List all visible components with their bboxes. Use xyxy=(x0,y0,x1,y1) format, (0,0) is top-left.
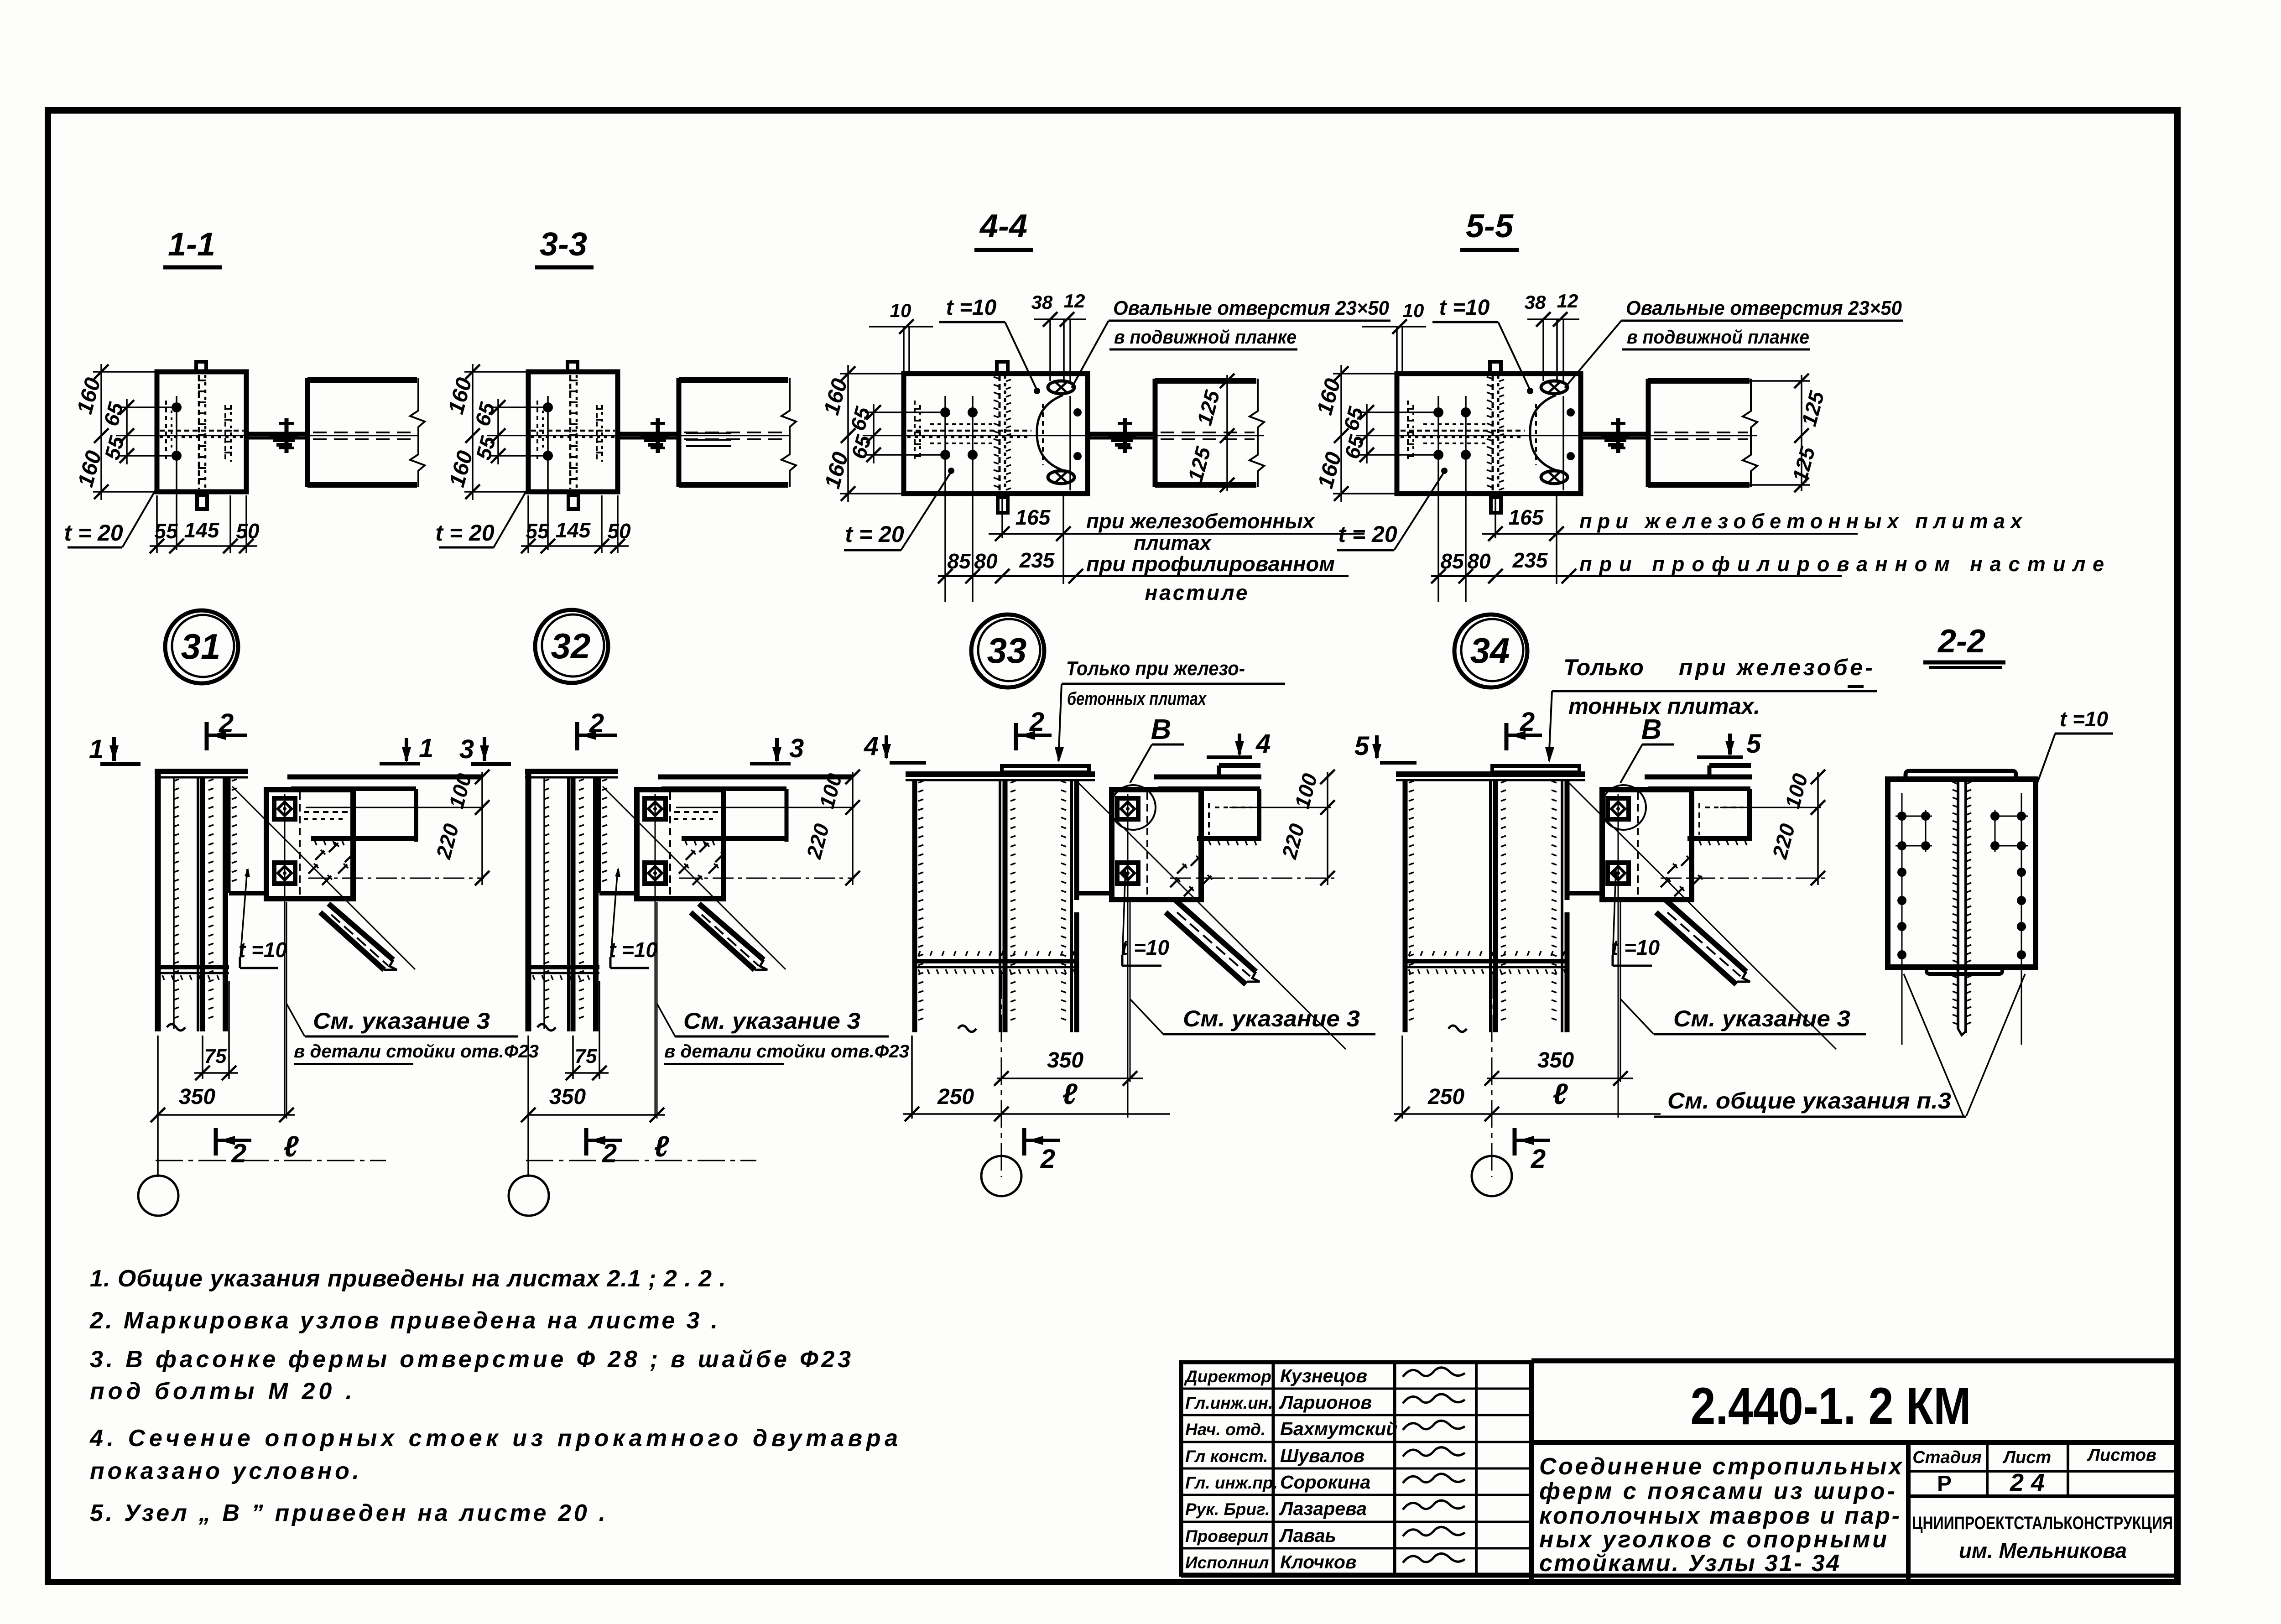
strip hidden dashes xyxy=(1042,404,1044,465)
2-2 cap plate behind xyxy=(1906,771,2016,779)
svg-text:Лист: Лист xyxy=(2002,1448,2051,1467)
2-2 web break bottom xyxy=(1958,1029,1966,1035)
dim 75 extensions xyxy=(572,1036,574,1079)
see note leader xyxy=(657,1004,675,1036)
section mark 5 on beam xyxy=(1697,755,1743,759)
svg-text:Листов: Листов xyxy=(2087,1446,2156,1465)
svg-text:10: 10 xyxy=(1403,300,1424,321)
left outer dimension line xyxy=(472,364,474,500)
dim 38 12 line xyxy=(1034,318,1086,320)
svg-text:80: 80 xyxy=(1467,549,1491,573)
diagonal brace xyxy=(1665,900,1746,972)
bolt holes centerline xyxy=(176,396,177,550)
column flange right xyxy=(223,777,228,1031)
axis line 220 dash-dot xyxy=(308,878,484,879)
dim 125 125 line xyxy=(1226,375,1228,491)
svg-text:Ларионов: Ларионов xyxy=(1279,1392,1372,1413)
svg-text:Овальные отверстия 23×50: Овальные отверстия 23×50 xyxy=(1626,297,1902,319)
beam top line xyxy=(1645,775,1752,780)
svg-text:Лазарева: Лазарева xyxy=(1279,1498,1367,1519)
svg-text:250: 250 xyxy=(1427,1085,1464,1109)
only-at leader xyxy=(1058,684,1062,761)
brace axis line xyxy=(1079,783,1346,1049)
strip hidden dashes xyxy=(1535,404,1537,465)
bolt top xyxy=(543,402,553,412)
plate top tab xyxy=(568,362,578,372)
bracket bolt top xyxy=(1608,798,1629,819)
bolt centerline xyxy=(1127,794,1129,1118)
svg-text:Только: Только xyxy=(1563,655,1644,680)
svg-text:стойками. Узлы 31- 34: стойками. Узлы 31- 34 xyxy=(1539,1550,1839,1577)
bolt rod to beam xyxy=(618,432,679,435)
section mark 2 top xyxy=(575,722,579,750)
column break marks xyxy=(537,1024,556,1031)
stiffener line with welds xyxy=(1492,375,1494,492)
svg-text:2: 2 xyxy=(1040,1144,1055,1174)
bolt bottom xyxy=(543,451,553,461)
beam second line xyxy=(1158,786,1260,791)
brace axis line xyxy=(603,786,786,969)
left outer dimension line xyxy=(847,365,849,502)
svg-text:235: 235 xyxy=(1512,548,1548,572)
column break marks xyxy=(958,1025,976,1032)
bolt centerline xyxy=(284,794,286,1118)
gusset shelf xyxy=(229,891,268,895)
svg-text:55: 55 xyxy=(526,519,550,543)
svg-text:t =10: t =10 xyxy=(1439,296,1490,320)
oval hole bottom xyxy=(1048,471,1074,484)
2-2 leader to note p3 xyxy=(1904,974,1963,1116)
dim 125 125 line xyxy=(1801,375,1802,491)
plate weld seam horizontal xyxy=(160,430,244,432)
dim 350 line xyxy=(156,1114,295,1116)
t=10 leader xyxy=(1122,869,1125,960)
gusset shelf xyxy=(599,891,639,895)
stiffener bottom tab xyxy=(1491,497,1501,513)
svg-text:2.440-1. 2 КМ: 2.440-1. 2 КМ xyxy=(1691,1377,1971,1436)
hidden dashes in bracket xyxy=(1208,803,1210,835)
svg-text:См. общие указания п.3: См. общие указания п.3 xyxy=(1667,1088,1951,1114)
dim 250 line xyxy=(903,1113,1170,1115)
svg-text:2. Маркировка узлов приведе: 2. Маркировка узлов приведена на листе 3… xyxy=(89,1307,718,1334)
bracket bend line dashed xyxy=(669,792,671,896)
bolt top xyxy=(172,402,182,412)
dim line 100/220 xyxy=(1327,772,1328,885)
plate bottom tab xyxy=(568,495,578,509)
column lower stiffener xyxy=(531,965,599,969)
beam bottom seat xyxy=(1197,836,1260,841)
svg-text:4-4: 4-4 xyxy=(979,208,1027,245)
horizontal centerline xyxy=(116,435,419,437)
column weld left xyxy=(173,777,175,1029)
line under doc number xyxy=(1531,1440,2177,1445)
column web lines xyxy=(197,777,199,1031)
svg-text:Р: Р xyxy=(1937,1472,1952,1496)
bracket bend line dashed xyxy=(299,792,301,896)
bottom dimension line xyxy=(150,545,257,547)
svg-text:ЦНИИПРОЕКТСТАЛЬКОНСТРУКЦИЯ: ЦНИИПРОЕКТСТАЛЬКОНСТРУКЦИЯ xyxy=(1912,1513,2173,1533)
bracket bolt bottom xyxy=(1608,863,1629,884)
axis dash-dot line xyxy=(526,1160,756,1161)
t=10 leader xyxy=(240,869,247,963)
bolt centerline xyxy=(655,794,656,1118)
bottom dim row1 line xyxy=(1482,533,1858,535)
beam notch vertical xyxy=(1708,765,1712,777)
section 3-3 end plate t=20 xyxy=(528,372,618,492)
svg-text:12: 12 xyxy=(1064,290,1085,312)
column lower stiffener xyxy=(917,959,1077,963)
bracket bolt top xyxy=(274,798,295,819)
t=20 leader xyxy=(1394,472,1444,550)
svg-text:Нач. отд.: Нач. отд. xyxy=(1185,1420,1265,1439)
only-at-RC-slabs plate on cap xyxy=(1492,766,1579,772)
dim 350 line xyxy=(997,1077,1143,1079)
brace axis line xyxy=(232,786,415,969)
horizontal centerline xyxy=(1356,435,1757,437)
section mark 4 on beam xyxy=(1207,755,1252,759)
column web lines xyxy=(567,777,570,1031)
dim 350 extension xyxy=(157,1036,159,1177)
left outer dimension line xyxy=(100,364,102,500)
dim extensions xyxy=(911,1036,913,1119)
gusset shelf xyxy=(1077,891,1112,895)
node circle 31 xyxy=(165,610,238,683)
diagonal brace xyxy=(1175,900,1256,972)
svg-text:t =10: t =10 xyxy=(2060,707,2109,731)
svg-text:в подвижной планке: в подвижной планке xyxy=(1114,326,1297,348)
beam second line xyxy=(661,786,786,791)
2-2 web strip xyxy=(1957,781,1959,1029)
beam top line xyxy=(1154,775,1261,780)
svg-text:4: 4 xyxy=(864,731,879,761)
t=10 leader (2-2) xyxy=(2036,734,2055,788)
dim 250 line xyxy=(1394,1113,1661,1115)
bolt column lines xyxy=(1437,396,1439,602)
hidden seat dashes xyxy=(674,811,724,813)
svg-text:38: 38 xyxy=(1031,291,1053,313)
svg-text:4: 4 xyxy=(1255,729,1271,759)
svg-text:в детали стойки отв.Ф23: в детали стойки отв.Ф23 xyxy=(664,1041,909,1062)
svg-text:в подвижной планке: в подвижной планке xyxy=(1627,326,1809,348)
svg-text:38: 38 xyxy=(1525,291,1546,313)
column break marks xyxy=(167,1024,185,1031)
svg-text:3-3: 3-3 xyxy=(540,226,587,263)
plate weld seam vertical xyxy=(569,375,572,489)
axis dash-dot line xyxy=(156,1160,386,1161)
bracket plate xyxy=(1602,790,1692,900)
only-at-RC-slabs plate on cap xyxy=(1002,766,1089,772)
oval holes leader xyxy=(1072,321,1109,388)
beam second line xyxy=(291,786,416,791)
svg-text:33: 33 xyxy=(987,630,1027,671)
svg-text:350: 350 xyxy=(549,1085,586,1109)
dim 75 extensions xyxy=(202,1036,203,1079)
svg-text:1-1: 1-1 xyxy=(168,226,215,263)
svg-text:t = 20: t = 20 xyxy=(435,520,494,546)
t=10 leader xyxy=(1005,322,1037,390)
svg-text:5: 5 xyxy=(1354,731,1370,761)
svg-text:Гл конст.: Гл конст. xyxy=(1185,1447,1268,1466)
svg-text:1: 1 xyxy=(419,734,433,763)
bracket bolt top xyxy=(645,798,666,819)
column right flange lower part xyxy=(1074,912,1079,1032)
svg-text:85: 85 xyxy=(947,549,971,573)
dim 38 12 extensions xyxy=(1542,319,1544,381)
bottom dim row2 line xyxy=(938,575,1349,577)
plate hidden lines left xyxy=(1407,401,1409,462)
dim 75 line xyxy=(194,1072,238,1074)
dim 38 12 extensions xyxy=(1049,319,1051,381)
svg-text:5. Узел „ В ” приведен на ли: 5. Узел „ В ” приведен на листе 20 . xyxy=(90,1500,605,1526)
beam end vertical xyxy=(1257,789,1261,841)
bracket plate xyxy=(1112,790,1201,900)
bolt centerline xyxy=(1618,794,1619,1118)
svg-text:250: 250 xyxy=(937,1085,974,1109)
svg-text:5-5: 5-5 xyxy=(1466,208,1514,245)
axis line 100 xyxy=(1229,807,1331,808)
bracket bend line dashed xyxy=(1637,792,1639,897)
beam hidden lines xyxy=(313,432,415,433)
svg-text:в детали стойки отв.Ф23: в детали стойки отв.Ф23 xyxy=(294,1041,539,1062)
circle B around top bolt xyxy=(1601,785,1646,830)
section mark 2 bottom xyxy=(1022,1128,1026,1156)
stadia cells xyxy=(1908,1470,2177,1473)
movable strip curve xyxy=(1530,395,1557,471)
2-2 bolts right inner xyxy=(1990,812,2000,821)
svg-text:165: 165 xyxy=(1016,505,1051,529)
bracket plate xyxy=(637,790,724,899)
beam (truss chord) of 3-3 xyxy=(679,377,788,383)
left inner dimension line xyxy=(873,404,875,463)
column flange left xyxy=(1403,780,1408,1032)
beam (truss chord) of 1-1 xyxy=(307,377,417,383)
stiffener top tab xyxy=(997,362,1008,373)
svg-text:Сорокина: Сорокина xyxy=(1280,1472,1370,1493)
gusset weld marks xyxy=(1177,864,1186,874)
svg-text:при железобе-: при железобе- xyxy=(1679,655,1873,680)
2-2 bolts right outer xyxy=(2017,812,2026,821)
svg-text:350: 350 xyxy=(1537,1048,1574,1072)
svg-text:50: 50 xyxy=(236,519,260,543)
gusset shelf xyxy=(1567,891,1602,895)
svg-text:В: В xyxy=(1151,714,1172,745)
svg-text:2: 2 xyxy=(1520,707,1535,737)
column cap plate xyxy=(1396,771,1585,777)
section mark 2 top xyxy=(1505,723,1509,750)
2-2 bolts left outer xyxy=(1897,812,1906,821)
dim extensions xyxy=(1401,1036,1403,1119)
axis circle xyxy=(509,1176,549,1216)
column right flange xyxy=(1070,780,1073,1032)
svg-text:2: 2 xyxy=(1029,707,1044,737)
column flange left xyxy=(155,771,161,1031)
see note leader xyxy=(1130,999,1163,1034)
title block signature table xyxy=(1181,1362,1531,1575)
bolt column lines xyxy=(944,396,946,602)
left outer dimension line xyxy=(1340,365,1342,502)
plate weld seam horizontal xyxy=(1401,430,1525,432)
axis line 100 xyxy=(306,807,484,808)
section mark 2 top xyxy=(1014,723,1018,750)
svg-text:145: 145 xyxy=(184,518,220,542)
2-2 bottom tab xyxy=(1927,967,2002,974)
strip centerline xyxy=(1069,396,1071,490)
svg-text:80: 80 xyxy=(974,549,998,573)
beam bottom seat xyxy=(311,836,417,841)
beam hidden lines xyxy=(1654,432,1748,433)
column web pair xyxy=(999,780,1001,1032)
svg-text:См. указание 3: См. указание 3 xyxy=(683,1008,860,1034)
node circle 34 xyxy=(1454,614,1527,687)
svg-text:2: 2 xyxy=(219,708,234,738)
svg-text:2-2: 2-2 xyxy=(1937,623,1985,660)
svg-text:31: 31 xyxy=(181,626,221,666)
column cap plate xyxy=(155,769,248,774)
diagonal brace xyxy=(328,904,393,960)
left inner dimension line xyxy=(126,399,128,464)
2-2 small line left xyxy=(1848,685,1864,688)
svg-text:Исполнил: Исполнил xyxy=(1185,1553,1269,1572)
beam end vertical xyxy=(1747,789,1752,841)
t=10 leader xyxy=(1613,869,1616,960)
bolt rod to beam xyxy=(1088,432,1155,435)
dim 75 line xyxy=(565,1072,609,1074)
node circle 32 xyxy=(535,610,608,683)
bolt with nut xyxy=(1616,418,1620,453)
t=20 leader xyxy=(494,484,530,547)
movable strip curve xyxy=(1037,395,1064,471)
plate weld seam horizontal xyxy=(907,430,1031,432)
svg-text:24: 24 xyxy=(2010,1469,2052,1496)
title block main box xyxy=(1531,1359,2177,1364)
plate hidden lines xyxy=(596,405,598,462)
column flange left xyxy=(526,771,531,1031)
svg-text:при профилированном: при профилированном xyxy=(1086,552,1335,576)
hidden washer plate in beam xyxy=(686,433,731,446)
axis circle xyxy=(981,1156,1021,1196)
svg-text:165: 165 xyxy=(1509,505,1544,529)
dim 350 line xyxy=(527,1114,665,1116)
column lower stiffener xyxy=(1407,959,1567,963)
svg-text:350: 350 xyxy=(1047,1048,1083,1072)
bracket bolt bottom xyxy=(1117,863,1138,884)
svg-text:85: 85 xyxy=(1440,549,1464,573)
stiffener top tab xyxy=(1490,362,1501,373)
column break marks xyxy=(1448,1025,1467,1032)
t=20 leader xyxy=(901,472,951,550)
see note leader xyxy=(286,1004,305,1036)
svg-text:См. указание 3: См. указание 3 xyxy=(1183,1006,1360,1031)
svg-text:145: 145 xyxy=(556,518,591,542)
beam top line xyxy=(287,775,483,780)
bracket bolt bottom xyxy=(274,863,295,884)
bolt with nut xyxy=(285,418,289,453)
svg-text:t =10: t =10 xyxy=(239,938,287,962)
svg-text:2: 2 xyxy=(1531,1144,1546,1174)
oval holes leader xyxy=(1565,321,1621,388)
beam bottom seat xyxy=(1687,836,1750,841)
axis line 100 xyxy=(676,807,854,808)
svg-text:кополочных тавров и пар-: кополочных тавров и пар- xyxy=(1539,1503,1900,1529)
svg-text:настиле: настиле xyxy=(1145,581,1248,604)
section mark 2 bottom xyxy=(584,1128,588,1156)
section mark 2 bottom xyxy=(1513,1128,1517,1156)
plate hidden lines xyxy=(224,405,226,462)
2-2 bolt axis left xyxy=(1901,793,1903,1045)
svg-text:Шувалов: Шувалов xyxy=(1280,1445,1364,1466)
gusset weld marks xyxy=(1667,864,1677,874)
svg-text:Гл.инж.ин.: Гл.инж.ин. xyxy=(1185,1394,1273,1412)
svg-text:4. Сечение опорных стоек и: 4. Сечение опорных стоек из прокатного д… xyxy=(89,1425,898,1452)
plate top tab xyxy=(196,362,206,372)
beam second line xyxy=(1648,786,1750,791)
svg-text:55: 55 xyxy=(154,519,178,543)
svg-text:t = 20: t = 20 xyxy=(845,521,904,547)
bracket plate xyxy=(266,790,353,899)
svg-text:t = 20: t = 20 xyxy=(64,520,123,546)
left dimension extensions xyxy=(840,373,906,375)
section 1-1 end plate t=20 xyxy=(157,372,246,492)
axis line 100 xyxy=(1720,807,1821,808)
dim 350 line xyxy=(1487,1077,1633,1079)
beam hidden lines xyxy=(1161,432,1255,433)
column right flange xyxy=(1561,780,1563,1032)
bottom dimension extensions xyxy=(527,495,529,553)
bolt holes centerline xyxy=(547,396,549,550)
bolt grid xyxy=(1433,407,1443,417)
svg-text:Стадия: Стадия xyxy=(1912,1448,1981,1467)
left inner dimension line xyxy=(1366,404,1368,463)
left dimension extension lines xyxy=(464,371,530,373)
svg-text:при железобетонных плитах: при железобетонных плитах xyxy=(1579,510,2023,533)
svg-text:См. указание 3: См. указание 3 xyxy=(313,1008,490,1034)
strip centerline xyxy=(1562,396,1564,490)
t=10 leader xyxy=(610,869,618,963)
only-at leader xyxy=(1549,691,1552,761)
left dimension extension lines xyxy=(93,371,159,373)
gusset weld marks xyxy=(686,851,695,860)
svg-text:34: 34 xyxy=(1470,630,1510,671)
left dimension extensions xyxy=(1333,373,1399,375)
bottom dim row1 line xyxy=(989,533,1364,535)
svg-text:t =10: t =10 xyxy=(609,938,658,962)
svg-text:Клочков: Клочков xyxy=(1280,1551,1357,1572)
svg-text:t = 20: t = 20 xyxy=(1338,521,1397,547)
svg-text:5: 5 xyxy=(1746,729,1761,759)
svg-text:при железобетонных: при железобетонных xyxy=(1086,510,1315,533)
svg-text:1. Общие указания приведены: 1. Общие указания приведены на листах 2.… xyxy=(90,1265,726,1292)
2-2 bolt links right xyxy=(1991,816,2028,817)
svg-text:показано условно.: показано условно. xyxy=(90,1458,359,1484)
axis circle xyxy=(1472,1156,1512,1196)
svg-text:им. Мельникова: им. Мельникова xyxy=(1959,1539,2127,1562)
svg-text:50: 50 xyxy=(607,519,631,543)
svg-text:3: 3 xyxy=(459,734,474,764)
svg-text:t =10: t =10 xyxy=(1121,936,1170,959)
svg-text:тонных плитах.: тонных плитах. xyxy=(1568,693,1760,719)
section mark 2 top xyxy=(205,722,209,750)
plate hidden lines left xyxy=(914,401,916,462)
strip bolts xyxy=(1567,408,1575,416)
svg-text:ℓ: ℓ xyxy=(654,1130,669,1163)
beam of 5-5 xyxy=(1648,378,1750,384)
2-2 bolts left inner xyxy=(1921,812,1930,821)
axis line 220 dash-dot xyxy=(679,878,854,879)
2-2 bolt links left xyxy=(1896,816,1932,817)
svg-text:Гл. инж.пр.: Гл. инж.пр. xyxy=(1185,1473,1278,1492)
beam end vertical xyxy=(785,789,789,842)
bolt with nut xyxy=(656,418,660,453)
